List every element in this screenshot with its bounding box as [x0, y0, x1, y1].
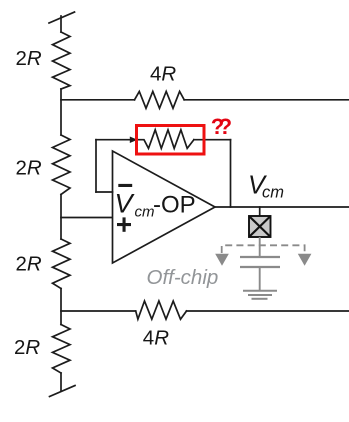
svg-text:4R: 4R [150, 62, 176, 85]
resistor 2R (ladder R2) [53, 135, 71, 195]
svg-text:2R: 2R [16, 47, 42, 70]
svg-text:2R: 2R [16, 157, 42, 180]
resistor 2R (ladder R3) [53, 239, 71, 289]
feedback resistor Rfb (value ??) [138, 130, 194, 149]
label 2R (R1) [14, 47, 176, 359]
wire: ladder top stub with break mark [49, 12, 75, 32]
op-amp U1 label Vcm-OP [115, 189, 196, 221]
wire: ladder segment R3 to R4 through node C [60, 289, 62, 325]
wire: ladder segment R1 to R2 through node A [60, 89, 62, 135]
op-amp U1 triangle body [113, 151, 216, 263]
wire: pad to capacitor top plate (off-chip) [259, 237, 261, 257]
wire: feedback right vertical leg to output node [230, 140, 232, 207]
wire: capacitor to ground [259, 267, 261, 290]
wire: node B to op-amp non-inverting input [61, 217, 113, 219]
wire: ladder segment R2 to R3 through node B [60, 195, 62, 240]
svg-text:Off-chip: Off-chip [147, 266, 219, 289]
wire: inverting input stub [96, 191, 113, 193]
svg-text:2R: 2R [14, 336, 40, 359]
highlight box (red) around feedback resistor Rfb [137, 126, 205, 155]
capacitor C1 top plate (off-chip) [240, 256, 280, 258]
off-chip arrow (right, down) [298, 254, 312, 266]
wire: Rfb to output, top segment [194, 139, 231, 141]
wire: output stub down to bond pad [259, 207, 261, 216]
resistor 2R (ladder R1, top) [53, 32, 71, 89]
svg-text:4R: 4R [143, 327, 169, 350]
off-chip boundary dashed line with corner drops [222, 245, 305, 253]
wire: op-amp output to right edge (Vcm net) [215, 206, 349, 208]
resistor 2R (ladder R4, bottom) [53, 325, 71, 374]
resistor 4R (bottom) [136, 301, 187, 319]
wire: node C bottom tap, left segment [61, 310, 136, 312]
label ?? (unknown Rfb value, red) [211, 114, 232, 139]
wire: feedback top horizontal to Rfb [96, 139, 133, 141]
arrowhead on feedback wire into Rfb [130, 137, 138, 144]
bond pad (crossed square) [249, 216, 271, 237]
svg-text:2R: 2R [16, 253, 42, 276]
wire: node C bottom tap, right segment to edge [187, 310, 349, 312]
capacitor C1 bottom plate [240, 266, 280, 268]
wire: node A top tap, left segment [61, 99, 135, 101]
svg-text:-OP: -OP [153, 192, 196, 219]
label Vcm (output net name) [248, 172, 284, 202]
op-amp U1 inverting input marker (-) [118, 184, 132, 187]
svg-text:cm: cm [262, 183, 284, 201]
svg-text:?: ? [219, 114, 232, 139]
op-amp U1 non-inverting input marker (+) [117, 217, 131, 231]
wire: node A top tap, right segment to edge [184, 99, 349, 101]
resistor 4R (top) [135, 91, 185, 108]
off-chip arrow (left, down) [215, 254, 229, 266]
ground symbol [243, 291, 277, 299]
svg-text:cm: cm [135, 204, 155, 221]
wire: feedback left vertical leg [95, 140, 97, 192]
svg-text:V: V [115, 189, 136, 219]
wire: ladder bottom stub with break mark [50, 373, 76, 397]
